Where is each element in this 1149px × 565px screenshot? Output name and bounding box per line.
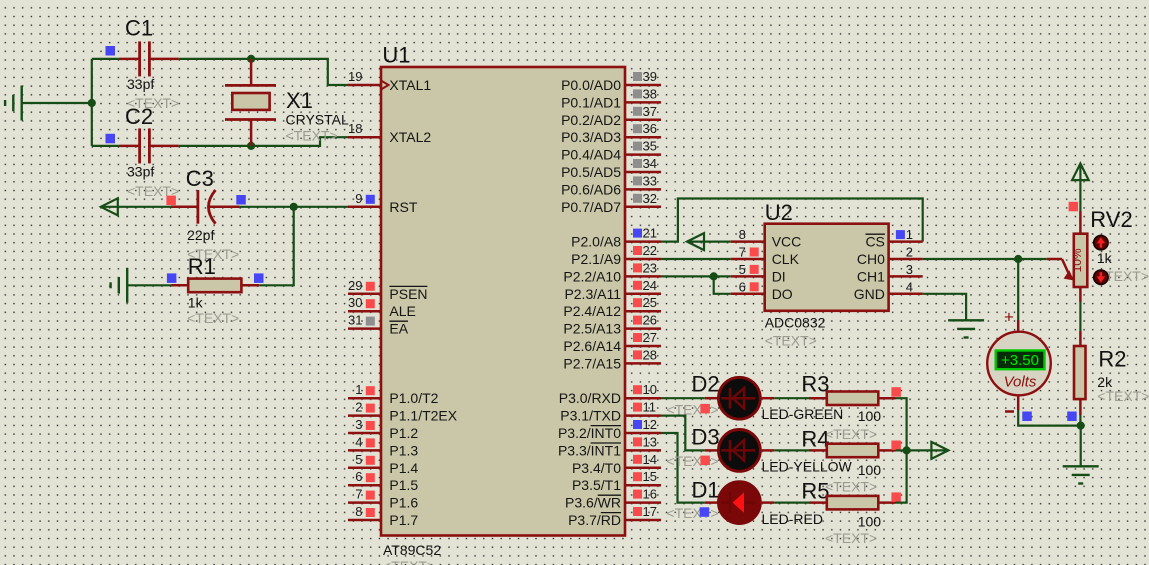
svg-text:R1: R1 (188, 254, 216, 279)
svg-text:+3.50: +3.50 (1001, 352, 1039, 369)
svg-text:CS: CS (865, 234, 884, 250)
U1 pin 36 (P0.3/AD3) (561, 121, 661, 145)
terminal arrow (RST net, pointing left) (101, 198, 118, 215)
svg-text:P3.5/T1: P3.5/T1 (572, 477, 621, 493)
U1 pin 14 (P3.4/T0) (572, 452, 661, 476)
capacitor C2 33pf (92, 104, 179, 199)
svg-text:EA: EA (389, 321, 408, 337)
U2 pin 2 (CH0) (857, 245, 923, 268)
svg-text:4: 4 (906, 279, 913, 294)
svg-text:18: 18 (348, 121, 362, 136)
wire D1 to R5 (774, 502, 809, 504)
svg-text:P0.7/AD7: P0.7/AD7 (561, 199, 621, 215)
svg-text:R5: R5 (801, 479, 829, 504)
svg-text:17: 17 (643, 504, 657, 519)
svg-text:XTAL1: XTAL1 (389, 77, 431, 93)
svg-text:P1.1/T2EX: P1.1/T2EX (389, 408, 457, 424)
svg-text:21: 21 (643, 226, 657, 241)
svg-text:VCC: VCC (772, 234, 802, 250)
svg-text:CRYSTAL: CRYSTAL (286, 112, 349, 128)
svg-text:<TEXT>: <TEXT> (825, 530, 877, 546)
junction CH0/voltmeter node (1014, 255, 1022, 263)
U1 pin 5 (P1.4) (348, 452, 418, 476)
svg-text:<TEXT>: <TEXT> (1097, 388, 1149, 404)
svg-text:100: 100 (858, 462, 882, 478)
svg-text:LED-GREEN: LED-GREEN (762, 406, 844, 422)
IC U1 AT89C52 body (381, 43, 625, 565)
svg-text:P2.0/A8: P2.0/A8 (571, 234, 621, 250)
svg-text:CLK: CLK (772, 251, 800, 267)
U2 pin 4 (GND) (854, 279, 923, 302)
net label marker P3.4 (666, 453, 718, 469)
svg-text:15: 15 (643, 469, 657, 484)
junction crystal bottom (247, 142, 255, 150)
svg-text:<TEXT>: <TEXT> (187, 310, 239, 326)
svg-text:AT89C52: AT89C52 (383, 542, 441, 558)
svg-text:P0.0/AD0: P0.0/AD0 (561, 77, 621, 93)
junction crystal top (247, 55, 255, 63)
potentiometer RV2 1k (1047, 202, 1149, 302)
wire RV2 to R2 (1079, 302, 1081, 331)
svg-text:C2: C2 (125, 104, 153, 129)
U1 pin 12 (P3.2/INT0) (558, 417, 661, 441)
U2 pin 7 (CLK) (731, 245, 800, 268)
junction RST/R1 node (290, 203, 298, 211)
U2 pin 3 (CH1) (857, 262, 923, 285)
U1 pin 26 (P2.5/A13) (563, 313, 661, 337)
voltmeter (Volts, +3.50) (987, 308, 1051, 412)
svg-text:100: 100 (858, 408, 882, 424)
svg-text:CH1: CH1 (857, 268, 885, 284)
svg-text:P1.4: P1.4 (389, 460, 418, 476)
capacitor C3 22pf (166, 166, 245, 262)
svg-text:6: 6 (739, 279, 746, 294)
U1 pin 22 (P2.1/A9) (571, 243, 661, 267)
wire node to voltmeter + (1017, 259, 1019, 320)
svg-text:P2.2/A10: P2.2/A10 (563, 268, 621, 284)
U1 pin 21 (P2.0/A8) (571, 226, 661, 250)
ground G3 (U2 GND) (948, 320, 984, 337)
U1 pin 16 (P3.6/WR) (565, 487, 661, 511)
wire node to ground G4 (1080, 426, 1082, 467)
svg-text:R3: R3 (801, 372, 829, 397)
U1 pin 2 (P1.1/T2EX) (348, 400, 458, 424)
svg-text:P3.1/TXD: P3.1/TXD (560, 408, 621, 424)
U1 pin 33 (P0.6/AD6) (561, 173, 661, 197)
U1 pin 4 (P1.3) (348, 434, 418, 458)
svg-text:8: 8 (739, 227, 746, 242)
svg-text:23: 23 (643, 260, 657, 275)
ground G2 (at R1) (111, 268, 128, 303)
svg-text:+: + (1004, 308, 1014, 327)
svg-text:P2.7/A15: P2.7/A15 (563, 355, 621, 371)
svg-text:P3.0/RXD: P3.0/RXD (559, 390, 621, 406)
wire R3 to output bus (896, 398, 907, 450)
wire terminal to C3 (101, 206, 171, 208)
svg-text:P2.3/A11: P2.3/A11 (564, 286, 621, 302)
U2 pin 6 (DO) (731, 279, 793, 302)
svg-text:GND: GND (854, 286, 885, 302)
svg-text:14: 14 (643, 452, 657, 467)
wire ground to R1 (127, 284, 171, 286)
wire R4 to output junction (896, 449, 907, 451)
wire R5 to output bus (896, 450, 907, 502)
wire P2.0 to U2 CS (over the top) (661, 199, 923, 242)
svg-text:P3.6/WR: P3.6/WR (565, 495, 621, 511)
junction at C1/C2 left node (88, 99, 96, 107)
wire U2 GND to ground (923, 294, 966, 321)
terminal arrow (output, pointing right) (931, 442, 948, 459)
U1 pin 6 (P1.5) (348, 469, 418, 493)
U1 pin 18 (XTAL2) (348, 121, 431, 145)
svg-text:P3.2/INT0: P3.2/INT0 (558, 425, 621, 441)
U2 pin 1 (CS) (865, 227, 922, 250)
svg-text:12: 12 (643, 417, 657, 432)
U1 pin 8 (P1.7) (348, 504, 418, 528)
svg-text:38: 38 (643, 86, 657, 101)
resistor R3 100 (801, 372, 901, 443)
terminal arrow (VCC net, pointing left) (687, 233, 704, 250)
U1 pin 17 (P3.7/RD) (568, 504, 661, 528)
svg-text:7: 7 (355, 487, 362, 502)
U2 pin 5 (DI) (731, 262, 786, 285)
svg-text:R2: R2 (1098, 347, 1126, 372)
resistor R5 100 (801, 479, 901, 547)
wire C3 to U1 pin9 RST (240, 206, 349, 208)
svg-text:P0.5/AD5: P0.5/AD5 (561, 164, 621, 180)
junction R2/ground node (1077, 422, 1085, 430)
wire P3.1 to D3 (661, 416, 705, 451)
svg-text:31: 31 (348, 313, 362, 328)
U1 pin 1 (P1.0/T2) (348, 382, 439, 406)
svg-text:P2.6/A14: P2.6/A14 (563, 338, 621, 354)
svg-text:1k: 1k (188, 294, 204, 310)
svg-text:100: 100 (858, 514, 882, 530)
U1 pin 32 (P0.7/AD7) (561, 191, 661, 215)
svg-text:<TEXT>: <TEXT> (825, 479, 877, 495)
svg-text:ALE: ALE (389, 303, 415, 319)
U1 pin 3 (P1.2) (348, 417, 418, 441)
U1 pin 7 (P1.6) (348, 487, 418, 511)
capacitor C1 33pf (92, 16, 179, 112)
svg-text:37: 37 (643, 104, 657, 119)
svg-text:P1.2: P1.2 (389, 425, 418, 441)
svg-text:5: 5 (739, 262, 746, 277)
ground G1 (top-left) (5, 86, 22, 121)
svg-text:LED-YELLOW: LED-YELLOW (762, 459, 853, 475)
svg-text:Volts: Volts (1004, 374, 1037, 391)
svg-text:P3.3/INT1: P3.3/INT1 (558, 442, 621, 458)
blue marker voltmeter (1022, 412, 1032, 422)
U1 pin 27 (P2.6/A14) (563, 330, 661, 354)
U1 pin 24 (P2.3/A11) (564, 278, 661, 302)
LED D3 LED-YELLOW (692, 425, 853, 475)
svg-text:36: 36 (643, 121, 657, 136)
U1 pin 29 (PSEN) (348, 278, 428, 302)
svg-text:P0.3/AD3: P0.3/AD3 (561, 129, 621, 145)
svg-text:RV2: RV2 (1090, 207, 1132, 232)
svg-text:P0.4/AD4: P0.4/AD4 (561, 147, 621, 163)
wire P2.2 to U2 DI (661, 275, 731, 277)
svg-text:P0.2/AD2: P0.2/AD2 (561, 112, 621, 128)
svg-text:PSEN: PSEN (389, 286, 427, 302)
svg-text:32: 32 (643, 191, 657, 206)
svg-text:7: 7 (739, 245, 746, 260)
IC U2 ADC0832 body (765, 200, 889, 349)
U1 pin 11 (P3.1/TXD) (560, 400, 661, 424)
svg-text:<TEXT>: <TEXT> (825, 426, 877, 442)
svg-text:<TEXT>: <TEXT> (666, 402, 718, 418)
svg-text:P1.7: P1.7 (389, 512, 418, 528)
svg-text:<TEXT>: <TEXT> (666, 505, 718, 521)
svg-text:3: 3 (355, 417, 362, 432)
resistor R4 100 (801, 427, 901, 495)
wire C1 to U1 pin19 XTAL1 (179, 59, 349, 85)
svg-text:RST: RST (389, 199, 417, 215)
svg-text:U1: U1 (382, 43, 410, 68)
U1 pin 38 (P0.1/AD1) (561, 86, 661, 110)
wire R2 to ground node (1079, 415, 1081, 426)
svg-text:P2.4/A12: P2.4/A12 (563, 303, 621, 319)
svg-text:<TEXT>: <TEXT> (666, 453, 718, 469)
wire RST node down to R1 (259, 207, 294, 285)
svg-text:XTAL2: XTAL2 (389, 129, 431, 145)
svg-text:10%: 10% (1070, 248, 1084, 272)
wire P2.1 to U2 CLK (661, 258, 731, 260)
U2 pin 8 (VCC) (731, 227, 802, 250)
wire C2 to U1 pin18 XTAL2 (179, 137, 349, 146)
U1 pin 25 (P2.4/A12) (563, 295, 661, 319)
svg-text:8: 8 (355, 504, 362, 519)
U1 pin 19 (XTAL1) (348, 69, 431, 93)
svg-text:P0.1/AD1: P0.1/AD1 (561, 94, 621, 110)
net label marker P3.7 (666, 505, 718, 521)
resistor R2 2k (1074, 331, 1149, 415)
svg-text:P2.5/A13: P2.5/A13 (563, 321, 621, 337)
svg-text:35: 35 (643, 139, 657, 154)
svg-text:P3.4/T0: P3.4/T0 (572, 460, 621, 476)
svg-text:6: 6 (355, 469, 362, 484)
svg-text:25: 25 (643, 295, 657, 310)
svg-text:D1: D1 (692, 478, 720, 503)
svg-text:R4: R4 (801, 427, 829, 452)
junction DI/DO node (710, 272, 718, 280)
svg-text:P2.1/A9: P2.1/A9 (571, 251, 621, 267)
svg-text:D3: D3 (692, 425, 720, 450)
svg-text:P1.0/T2: P1.0/T2 (389, 390, 438, 406)
svg-text:13: 13 (643, 434, 657, 449)
svg-text:U2: U2 (765, 200, 793, 225)
svg-text:33: 33 (643, 173, 657, 188)
wire D3 to R4 (774, 449, 809, 451)
crystal X1 (225, 59, 349, 146)
svg-text:D2: D2 (692, 372, 720, 397)
wire terminal to U2 VCC (688, 241, 731, 243)
junction output bus (903, 446, 911, 454)
svg-text:P1.6: P1.6 (389, 495, 418, 511)
svg-text:29: 29 (348, 278, 362, 293)
svg-text:CH0: CH0 (857, 251, 885, 267)
svg-text:P1.5: P1.5 (389, 477, 418, 493)
U1 pin 23 (P2.2/A10) (563, 260, 661, 284)
svg-text:4: 4 (355, 434, 362, 449)
svg-text:DO: DO (772, 286, 793, 302)
LED D2 LED-GREEN (692, 372, 844, 423)
svg-text:39: 39 (643, 69, 657, 84)
blue marker R2 bottom (1067, 412, 1077, 422)
svg-text:C3: C3 (186, 166, 214, 191)
svg-text:33pf: 33pf (127, 164, 154, 180)
svg-text:2: 2 (906, 245, 913, 260)
ground G4 (bottom right) (1063, 466, 1099, 483)
svg-text:P0.6/AD6: P0.6/AD6 (561, 181, 621, 197)
U1 pin 15 (P3.5/T1) (572, 469, 661, 493)
svg-text:LED-RED: LED-RED (762, 511, 823, 527)
wire ground-to-C1/C2 node (22, 59, 92, 146)
wire P3.0 to D2 (661, 397, 705, 399)
svg-text:22: 22 (643, 243, 657, 258)
U1 pin 37 (P0.2/AD2) (561, 104, 661, 128)
U1 pin 39 (P0.0/AD0) (561, 69, 661, 93)
svg-text:11: 11 (643, 400, 657, 415)
U1 pin 13 (P3.3/INT1) (558, 434, 661, 458)
svg-text:P3.7/RD: P3.7/RD (568, 512, 621, 528)
svg-text:26: 26 (643, 313, 657, 328)
svg-text:9: 9 (355, 191, 362, 206)
LED D1 LED-RED (on) (692, 478, 823, 528)
resistor R1 1k (167, 254, 264, 326)
svg-text:28: 28 (643, 347, 657, 362)
svg-text:C1: C1 (125, 16, 153, 41)
svg-text:5: 5 (355, 452, 362, 467)
wire DI node down to DO (714, 276, 731, 293)
U1 pin 35 (P0.4/AD4) (561, 139, 661, 163)
power terminal arrow (up) at RV2 (1072, 164, 1089, 181)
svg-text:30: 30 (348, 295, 362, 310)
U1 pin 30 (ALE) (348, 295, 416, 319)
svg-text:1: 1 (355, 382, 362, 397)
svg-text:34: 34 (643, 156, 657, 171)
wire D2 to R3 (774, 397, 809, 399)
svg-text:22pf: 22pf (187, 227, 214, 243)
svg-text:24: 24 (643, 278, 657, 293)
wire voltmeter - to ground node (1018, 410, 1080, 426)
svg-text:2: 2 (355, 400, 362, 415)
svg-text:33pf: 33pf (127, 76, 154, 92)
svg-text:<TEXT>: <TEXT> (383, 558, 435, 565)
svg-text:P1.3: P1.3 (389, 442, 418, 458)
U1 pin 9 (RST) (348, 191, 418, 215)
wire P3.2 to D1 (661, 433, 705, 503)
svg-text:10: 10 (643, 382, 657, 397)
svg-text:19: 19 (348, 69, 362, 84)
svg-text:27: 27 (643, 330, 657, 345)
svg-text:X1: X1 (286, 88, 313, 113)
U1 pin 31 (EA) (348, 313, 409, 337)
svg-text:<TEXT>: <TEXT> (765, 333, 817, 349)
svg-text:16: 16 (643, 487, 657, 502)
svg-text:1k: 1k (1097, 250, 1113, 266)
wire power to RV2 top (1079, 166, 1081, 211)
wire junction to output terminal (907, 449, 948, 451)
svg-text:DI: DI (772, 268, 786, 284)
svg-text:1: 1 (906, 227, 913, 242)
svg-text:3: 3 (906, 262, 913, 277)
U1 pin 28 (P2.7/A15) (563, 347, 661, 371)
net label marker P3.1 (666, 402, 718, 418)
wire U2 CH0 to RV2 wiper (923, 258, 1047, 260)
svg-text:ADC0832: ADC0832 (765, 315, 826, 331)
U1 pin 34 (P0.5/AD5) (561, 156, 661, 180)
U1 pin 10 (P3.0/RXD) (559, 382, 661, 406)
svg-text:<TEXT>: <TEXT> (286, 128, 338, 144)
